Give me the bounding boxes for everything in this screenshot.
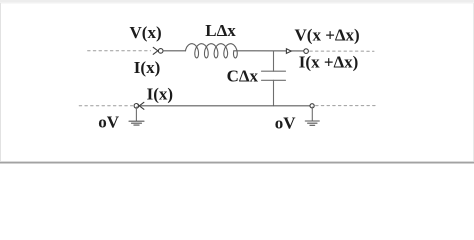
ground right stem [311, 107, 313, 121]
arrow out top-right (open triangle) [286, 49, 291, 54]
svg-text:LΔx: LΔx [205, 21, 236, 40]
wire top dashed lead-in [88, 50, 151, 52]
ground left stem [135, 107, 137, 121]
frame top band [0, 0, 474, 3]
svg-text:I(x): I(x) [147, 85, 173, 104]
wire capacitor bottom to rail [273, 80, 275, 106]
node top-left terminal circle [158, 49, 163, 54]
wire bottom rail [141, 105, 310, 107]
node bottom-left terminal circle [134, 104, 139, 109]
svg-text:I(x +Δx): I(x +Δx) [299, 53, 359, 72]
capacitor C top plate [262, 70, 286, 72]
svg-text:oV: oV [275, 113, 297, 132]
svg-text:I(x): I(x) [134, 58, 160, 77]
node bottom-right terminal circle [310, 104, 314, 108]
node top-right terminal circle [304, 49, 309, 54]
wire bottom dashed lead-out [316, 105, 378, 107]
svg-text:CΔx: CΔx [227, 66, 259, 85]
node A junction capacitor top [273, 51, 275, 71]
capacitor C bottom plate [262, 79, 286, 81]
wire inductor to node A [234, 50, 304, 52]
wire circle to inductor [163, 50, 185, 52]
ground left bars [129, 120, 144, 122]
frame right edge [473, 3, 474, 161]
svg-text:V(x): V(x) [130, 23, 162, 42]
svg-text:oV: oV [98, 112, 120, 131]
frame bottom rule [0, 162, 474, 164]
wire top dashed lead-out [310, 50, 374, 52]
svg-text:V(x +Δx): V(x +Δx) [295, 25, 360, 44]
inductor L [185, 44, 237, 58]
node top-left arrow (current I(x) into line) [153, 47, 159, 52]
arrow bottom-left (current I(x) out, pointing left) [138, 102, 144, 107]
frame left edge [0, 3, 1, 161]
wire bottom dashed lead-in [79, 105, 132, 107]
ground right bars [305, 120, 319, 122]
